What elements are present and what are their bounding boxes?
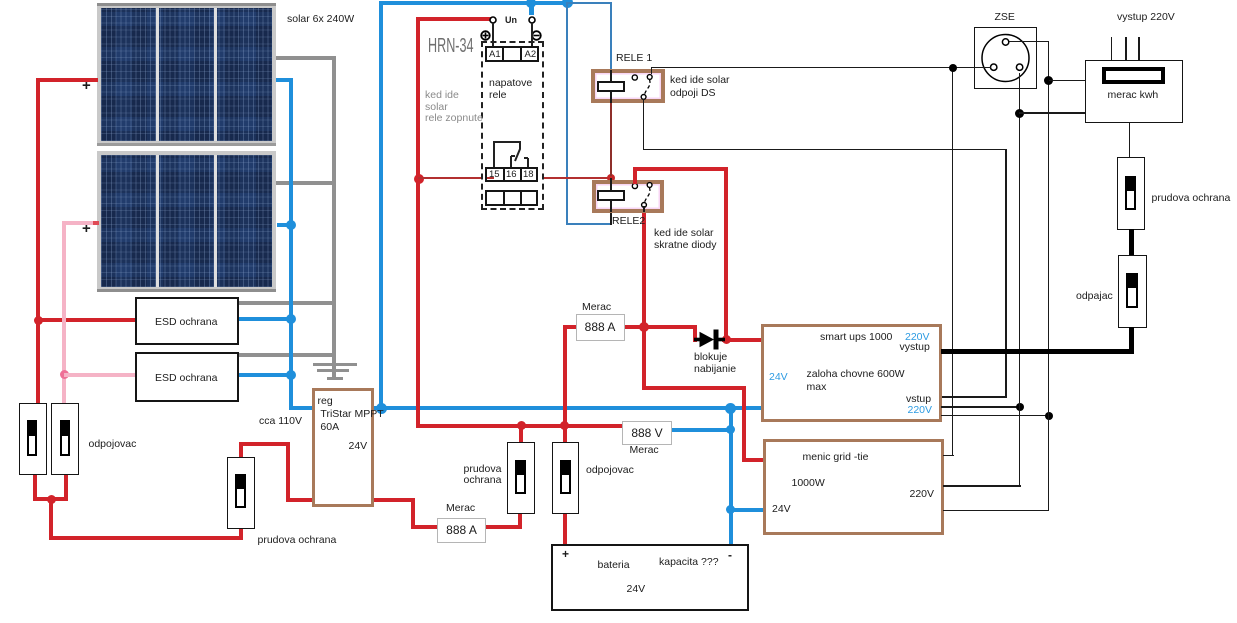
inverter smart ups box [761,324,942,422]
wire pink to ESD2 [64,373,135,377]
label odpojovac (left) [89,439,137,451]
wire blue thin RELE1 coil vertical [610,2,612,70]
wire red down from junction [49,499,53,540]
label - battery [728,550,732,562]
wire gray panel2 frame [276,181,336,185]
inverter menic grid-tie box [763,439,944,535]
label Merac (888V) [630,445,659,457]
wire red panel1+ horizontal [36,78,98,82]
wire red join horizontal [33,497,68,501]
wire red to menic down [742,386,746,462]
wire pink vertical [62,221,66,404]
terminal row 15 16 18 [485,167,538,182]
label ked ide solar rele zopnute [425,90,483,125]
wire red Merac888A left horiz [563,325,577,329]
switch odpojovac (mid) [552,442,579,515]
wire red TriStar output [373,498,415,502]
wire red into menic [742,458,765,462]
contact RELE2 [630,180,656,210]
breaker prudova ochrana (left) [227,457,255,530]
node black merackwh junction1 [1015,109,1024,118]
node red diode-smartups junction [722,335,731,344]
wire red prudova-left bottom [239,526,243,540]
wire red RELE2 contact top [633,167,637,186]
wire blue thin to RELE1 coil horiz [567,2,612,4]
wire gray vertical ground bus [332,56,336,378]
label ked ide solar skratne diody [654,227,716,252]
wire red tick at panel2+ [93,221,99,225]
wire blue panel2 stub [277,223,291,227]
label + panel 1 [82,80,91,92]
wire red bottom horizontal to prudova ochrana [49,536,243,540]
breaker prudova ochrana (right) [1117,157,1145,230]
label smart ups 1000 [820,332,892,344]
wire gray panel1 frame [276,56,336,60]
wire blue top vertical [379,1,383,409]
symbol plus terminal [480,30,491,41]
wire red to Merac 888A-2 [411,525,438,529]
node black vstup2 junction [1016,403,1024,411]
wire black vertical to smartups vstup [1005,149,1007,398]
node black vstup3 junction [1045,412,1053,420]
label vstup [906,394,931,406]
switch odpajac [1118,255,1147,328]
wire red to menic horiz [642,386,746,390]
wire red diode elbow horiz [644,325,697,329]
meter 888 A bottom [437,518,486,543]
label odpajac [1076,291,1113,303]
breaker prudova ochrana (mid) [507,442,535,515]
label HRN-34 [428,41,474,53]
wire black thick between breakers [1129,229,1134,256]
label merac kwh [1108,90,1159,102]
wire red RELE2 contact bottom vertical [642,211,646,390]
wire gray ESD1 earth [239,301,337,305]
wire black merac kwh bottom [1129,123,1131,158]
terminal circle + [489,16,497,24]
wire gray ESD2 earth [239,353,336,357]
label 18 [523,169,534,181]
wire darkred RELE1 coil to RELE2 [610,102,612,176]
label Merac (888A top) [582,302,611,314]
wire black to merac kwh in2 [1019,112,1086,114]
label kapacita ??? [659,557,719,569]
wire black smartups vstup horiz [941,396,1007,398]
wire red odpojovac1 bottom [33,474,37,501]
label bateria [598,560,630,572]
wire blue top horizontal [379,1,569,5]
label zaloha chovne 600W max [807,368,905,394]
label 24V TriStar [349,441,368,453]
node blue ESD1 junction [286,314,296,324]
node red prudova-mid junction [517,421,526,430]
node black merackwh junction2 [1044,76,1053,85]
wire black A1 lead [492,23,494,46]
ESD ochrana 1 [135,297,239,346]
node red odpojovac-mid junction [560,421,569,430]
node blue Un feed [526,0,536,8]
wire red odpojovac-mid bottom to battery [563,513,567,544]
label 24V menic [772,504,791,516]
wire blue ESD1 [239,317,291,321]
wire blue thin RELE2 coil vertical [566,2,568,224]
wire black RELE2 contact bottom stub [643,206,645,212]
wire red HRN vertical bus [416,17,420,428]
wire black ZSE left pin stub [974,67,991,69]
solar panel 1 (top, 3 modules) [97,3,276,146]
wire red prudova-left top [239,442,243,461]
node blue smartups junction [725,403,736,414]
wire red Merac888A left vertical [563,325,567,425]
wire blue to menic 24V [730,508,764,512]
wire blue thin RELE2 coil horizontal [566,223,611,225]
wire blue long horizontal to smart ups [373,406,762,410]
regulator TriStar MPPT [312,388,374,508]
label napatove rele [489,78,532,101]
meter 888 V [622,421,672,445]
relay RELE1 [591,69,665,103]
label prudova ochrana (left) [258,535,337,547]
socket ZSE [974,27,1037,90]
wire black RELE1 to smartups vstup horiz [643,149,1007,151]
wire red diode right to smart ups [722,338,762,342]
terminal row bottom [485,190,538,206]
node blue rele feed [562,0,573,8]
meter merac kwh box [1085,60,1183,123]
label A2 [525,49,537,61]
node red junction ESD1 [34,316,43,325]
node darkred RELE2 coil junction [607,174,615,182]
label 1000W [792,478,825,490]
wire red diode elbow down [693,325,697,342]
wire black RELE2 coil entry [610,178,612,225]
node black ZSE-left junction [949,64,957,72]
wire black A2 lead [531,23,533,46]
wire red prudova-mid top [519,427,523,442]
wire black ZSE top pin stub [1009,41,1037,43]
label 16 [506,169,517,181]
wire red jog right [239,442,290,446]
wire blue panel1 right [276,78,293,82]
wire red odpojovac2 bottom [64,474,68,501]
wire pink panel2+ horizontal [62,221,98,225]
wire black RELE1 NO up [651,67,653,74]
switch odpojovac 2 [51,403,79,476]
wire black merac kwh top leads [1111,37,1113,60]
terminal row A1 A2 [485,46,539,62]
label ZSE [995,12,1015,24]
wire red into TriStar [286,498,314,502]
wire blue down from smartups junction [729,406,733,544]
label A1 [489,49,501,61]
wire red jog down [286,442,290,501]
switch odpojovac 1 [19,403,47,476]
node red diode junction [639,322,649,332]
node blue TriStar junction [376,403,387,414]
node blue panel2 junction [286,220,296,230]
wire black ZSE top pin horiz [1008,41,1049,43]
wire black thick odpajac to smart ups vystup [1129,327,1134,353]
label solar 6x 240W [287,14,354,26]
ESD ochrana 2 [135,352,240,402]
wire black RELE2 coil line [610,180,612,212]
label + battery [562,549,569,561]
wire red to ESD1 [38,318,135,322]
wire red thin coil line [418,177,611,179]
wire blue to 888V meter [671,428,730,432]
relay contact glyph HRN [490,140,535,168]
node red junction odpojovac [47,495,56,504]
ground symbol [313,363,357,366]
wire red TriStar output down [411,498,415,529]
label 220V menic [910,489,935,501]
wire red odpojovac-mid top [563,427,567,442]
label odpojovac (mid) [586,465,634,477]
battery bateria [551,544,749,612]
label vystup [900,342,930,354]
wire black smartups vstup3 horiz [941,415,1049,417]
label 24V battery [627,584,646,596]
label Un [505,15,517,27]
node pink junction ESD2 [60,370,69,379]
wire red Merac888A right horiz [624,325,646,329]
node blue 888V junction [726,425,735,434]
wire black ZSE top pin vertical [1048,41,1050,511]
HRN-34 napatove rele (dashed) [481,41,544,210]
label 220V vystup blue [905,332,930,344]
label menic grid -tie [803,452,869,464]
label + panel 2 [82,223,91,235]
node blue menic junction [726,505,735,514]
label Merac (888A bottom) [446,503,475,515]
relay RELE2 [592,180,665,213]
label cca 110V [259,416,302,428]
wire black RELE1 coil line [610,70,612,103]
wire blue ESD2 [239,373,291,377]
display merac kwh [1102,67,1165,84]
wire red battery sense horizontal [416,424,623,428]
label blokuje nabijanie [694,352,736,375]
wire black menic out3 horiz [943,510,1049,512]
wire blue vertical bus [289,78,293,411]
wire blue into TriStar [289,406,313,410]
node blue ESD2 junction [286,370,296,380]
wire red RELE2 loop down to diode [724,167,728,340]
wire red Merac 888A-2 to prudova-mid bottom [486,525,522,529]
coil RELE2 [597,190,625,201]
wire red RELE2 contact stub [633,180,637,185]
wire black RELE1 contact bottom [643,99,645,150]
wire black menic out2 horiz [943,485,1021,487]
meter 888 A top [576,314,625,341]
diode blokuje nabijanie [694,329,725,350]
wire red stub across cell 15 [487,177,494,179]
wire red HRN supply horizontal [416,17,492,21]
wire black RELE1 to ZSE [651,67,994,69]
label RELE2 [612,216,645,228]
wire black menic out1 to ZSE (left pin net) [943,455,954,457]
symbol minus terminal [531,30,542,41]
label RELE 1 [616,53,652,65]
label ked ide solar odpoji DS [670,74,730,100]
wire red left vertical bus [36,78,40,323]
wire red prudova-mid bottom up [518,513,522,529]
label 15 [489,169,500,181]
wire black to merac kwh in1 [1049,80,1086,82]
label 220V vstup blue [908,405,933,417]
wire black ZSE right pin stub [1019,73,1021,90]
label reg TriStar [318,395,384,434]
terminal circle Un [528,16,536,24]
wire red RELE2 loop horiz [633,167,728,171]
wire black ZSE right pin vertical [1019,67,1021,487]
node red HRN coil junction [414,174,424,184]
solar panel 2 (bottom, 3 modules) [97,151,276,292]
wire black smartups vstup2 horiz [941,406,1020,408]
label 24V smart ups blue [769,372,788,384]
label vystup 220V [1117,12,1175,24]
wire red down to odpojovac1 [36,320,40,404]
contact RELE1 [630,71,656,101]
label prudova ochrana (mid) [464,464,502,487]
label prudova ochrana (right) [1152,193,1231,205]
coil RELE1 [597,81,626,92]
wire blue Un drop [529,2,534,15]
